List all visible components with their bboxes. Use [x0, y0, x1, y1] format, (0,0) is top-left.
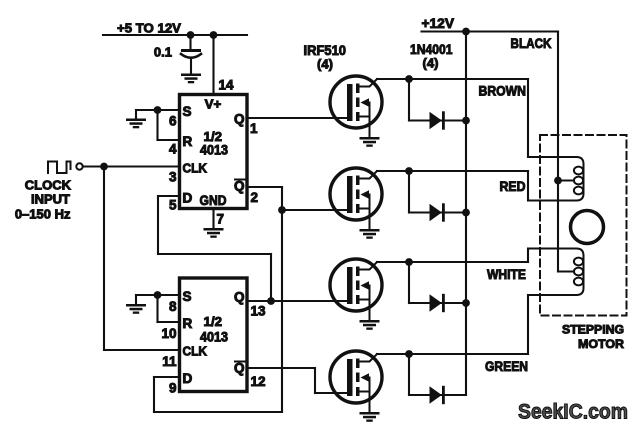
svg-text:GREEN: GREEN	[485, 359, 528, 374]
svg-text:(4): (4)	[317, 57, 333, 72]
svg-text:R: R	[183, 316, 193, 331]
svg-text:D: D	[183, 371, 193, 386]
svg-text:4013: 4013	[200, 142, 228, 157]
svg-text:S: S	[183, 104, 192, 119]
svg-text:9: 9	[169, 381, 177, 396]
svg-text:INPUT: INPUT	[31, 192, 70, 207]
svg-text:0.1: 0.1	[154, 45, 172, 60]
svg-text:CLK: CLK	[183, 344, 208, 359]
svg-text:S: S	[183, 289, 192, 304]
svg-text:RED: RED	[500, 179, 526, 194]
svg-text:+12V: +12V	[422, 16, 455, 31]
svg-text:1/2: 1/2	[204, 314, 223, 329]
svg-text:Q: Q	[234, 290, 245, 305]
svg-text:D: D	[183, 191, 193, 206]
svg-text:0–150 Hz: 0–150 Hz	[15, 207, 71, 222]
svg-text:12: 12	[251, 374, 266, 389]
svg-text:11: 11	[162, 354, 177, 369]
svg-text:GND: GND	[200, 193, 227, 208]
svg-text:MOTOR: MOTOR	[578, 337, 624, 351]
svg-text:13: 13	[251, 304, 267, 319]
svg-text:STEPPING: STEPPING	[562, 323, 624, 337]
svg-text:5: 5	[169, 198, 177, 213]
svg-text:SeekIC.com: SeekIC.com	[518, 400, 628, 424]
svg-text:R: R	[183, 134, 193, 149]
svg-text:CLOCK: CLOCK	[25, 178, 72, 193]
svg-text:8: 8	[169, 299, 177, 314]
svg-text:Q: Q	[234, 112, 245, 127]
svg-text:CLK: CLK	[183, 161, 208, 176]
svg-text:(4): (4)	[423, 56, 439, 71]
svg-text:3: 3	[169, 170, 177, 185]
svg-text:+5 TO 12V: +5 TO 12V	[117, 21, 181, 36]
svg-text:14: 14	[219, 78, 235, 93]
svg-text:1: 1	[250, 121, 258, 136]
svg-text:4013: 4013	[200, 330, 228, 345]
svg-text:6: 6	[169, 114, 177, 129]
svg-text:4: 4	[169, 142, 177, 157]
svg-text:2: 2	[251, 190, 259, 205]
svg-text:7: 7	[217, 212, 225, 227]
svg-text:V+: V+	[205, 97, 222, 112]
svg-text:10: 10	[161, 326, 176, 341]
svg-text:BROWN: BROWN	[479, 83, 527, 98]
svg-text:Q: Q	[234, 361, 245, 376]
svg-text:BLACK: BLACK	[511, 36, 552, 51]
svg-text:Q: Q	[234, 179, 245, 194]
svg-text:WHITE: WHITE	[487, 267, 526, 282]
